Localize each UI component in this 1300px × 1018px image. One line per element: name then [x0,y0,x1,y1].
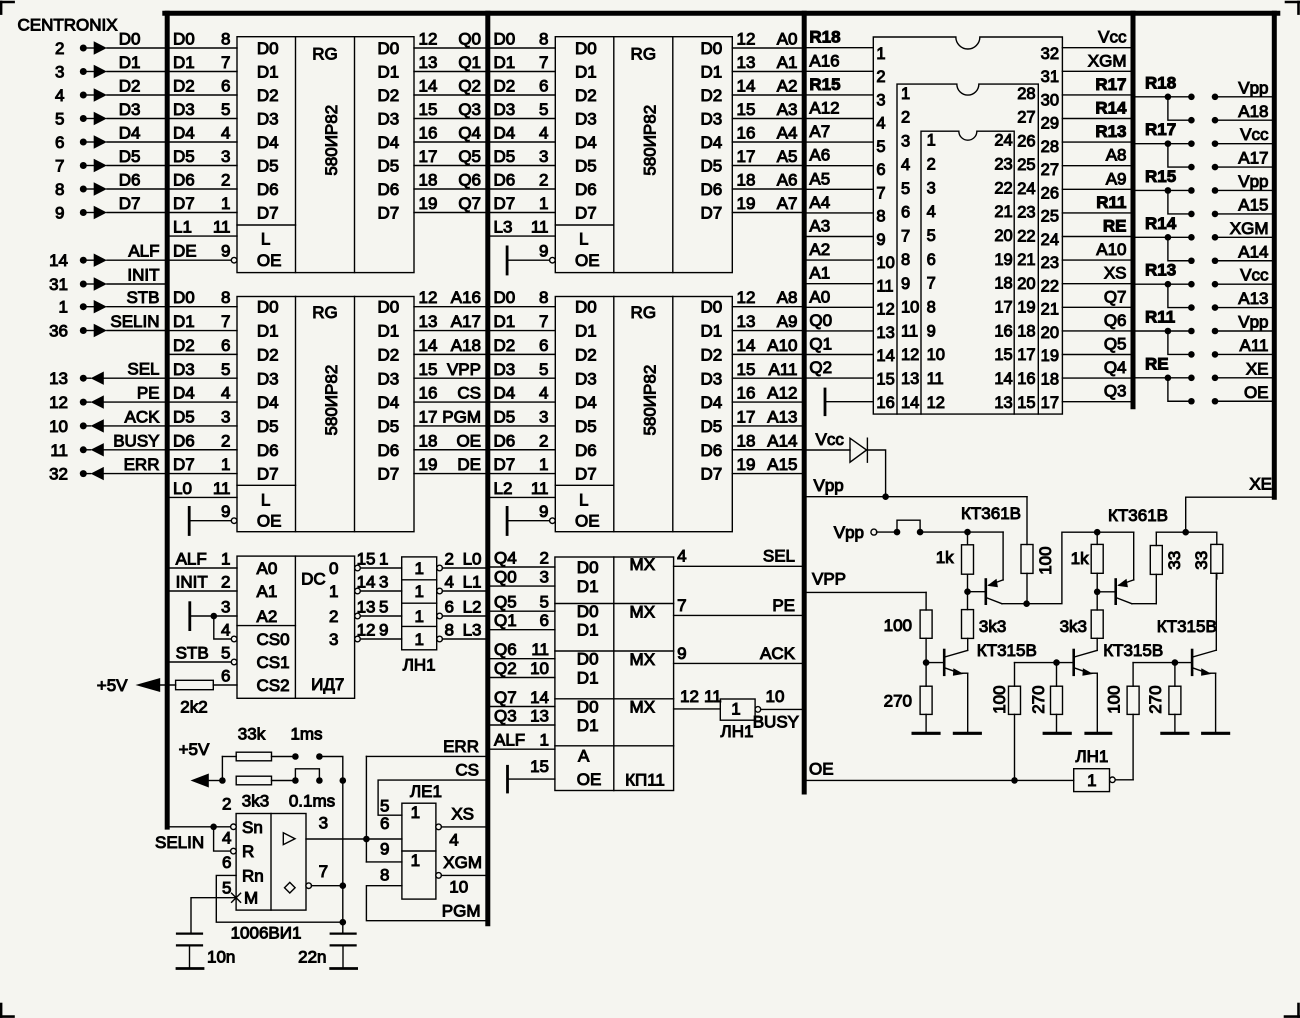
wire timing node vertical [342,781,344,934]
svg-text:R: R [242,842,254,861]
svg-text:14: 14 [357,573,376,592]
svg-text:D3: D3 [173,360,195,379]
gate output XGM pin 10 wire with circle [436,873,442,879]
svg-text:D0: D0 [577,602,599,621]
svg-text:D2: D2 [575,345,597,364]
svg-text:3: 3 [319,813,328,832]
svg-text:A0: A0 [777,30,798,49]
register DD2 output pin 19 DE wire [414,473,485,475]
frame corner mark bottom-right [1297,1004,1300,1017]
register DD1 input D4 pin 4 wire [170,141,237,143]
svg-text:D3: D3 [257,110,279,129]
node +5V junction [219,777,226,784]
decoder input CS1 pin 5 STB wire with inverter circle [170,661,232,663]
register DD1 latch input L1 pin 11 wire [170,235,237,237]
svg-text:D4: D4 [257,393,279,412]
svg-text:Q1: Q1 [458,53,481,72]
jumper group R17 net wire from bus [1133,143,1168,145]
socket pin 30 right wire net R17 [1062,94,1133,96]
svg-text:OE: OE [257,512,282,531]
svg-text:Q7: Q7 [1104,287,1127,306]
svg-text:A6: A6 [777,171,798,190]
inverter BUSY output circle pin 10 wire [755,707,761,713]
svg-text:XS: XS [1104,264,1127,283]
socket pin 14 left wire net Q1 [804,354,873,356]
svg-text:2: 2 [540,549,549,568]
svg-text:D5: D5 [575,417,597,436]
svg-text:11: 11 [901,323,918,341]
svg-text:D6: D6 [494,431,516,450]
svg-text:Vpp: Vpp [834,523,864,542]
svg-text:11: 11 [927,370,944,388]
svg-text:28: 28 [1041,138,1059,156]
svg-text:18: 18 [737,431,756,450]
svg-text:ACK: ACK [125,407,161,426]
frame corner mark bottom-left [0,1004,2,1017]
svg-text:D5: D5 [701,417,723,436]
svg-text:OE: OE [575,512,600,531]
timer output pin 7 wire with circle [306,883,312,889]
svg-text:D7: D7 [119,194,141,213]
svg-text:BUSY: BUSY [113,431,159,450]
svg-text:A10: A10 [1096,240,1126,259]
timer DD8 1006ВИ1 box [236,814,306,911]
svg-text:8: 8 [539,30,548,49]
svg-text:D3: D3 [494,100,516,119]
svg-text:12: 12 [49,393,68,412]
multiplexer input D1 pin 6 Q1 wire [490,629,555,631]
svg-text:5: 5 [222,879,231,898]
svg-text:Q3: Q3 [494,707,517,726]
svg-text:6: 6 [445,598,454,617]
svg-text:22n: 22n [298,948,326,967]
socket pin 21 right wire net Q7 [1062,306,1133,308]
svg-text:7: 7 [927,275,936,293]
svg-text:SEL: SEL [763,547,795,566]
svg-text:ЛН1: ЛН1 [721,722,754,741]
svg-text:32: 32 [49,465,68,484]
multiplexer input D0 pin 11 Q6 wire [490,658,555,660]
svg-text:A1: A1 [809,264,830,283]
svg-text:A11: A11 [769,360,798,379]
svg-text:D5: D5 [494,147,516,166]
svg-text:A9: A9 [777,312,798,331]
svg-text:L0: L0 [173,479,192,498]
svg-text:RG: RG [312,44,338,63]
svg-text:RG: RG [312,303,338,322]
register DD2 output pin 18 OE wire [414,449,485,451]
svg-text:MX: MX [630,650,656,669]
ground bar (R15v) [1044,732,1070,735]
svg-text:22: 22 [994,179,1012,197]
svg-text:10: 10 [766,687,785,706]
svg-text:19: 19 [737,455,756,474]
gate pin 9 input wire [366,861,402,863]
svg-text:2k2: 2k2 [180,698,207,717]
jumper pins R18 [1188,94,1195,101]
svg-text:D5: D5 [173,407,195,426]
svg-text:23: 23 [1041,254,1059,272]
svg-text:4: 4 [221,124,230,143]
jumper pads 1ms (open) [292,753,299,760]
wire Vcc from bus3 to diode [804,449,850,451]
svg-text:D1: D1 [378,63,400,82]
svg-text:CS2: CS2 [257,676,290,695]
svg-text:11: 11 [531,479,549,498]
svg-text:D0: D0 [378,298,400,317]
multiplexer address input A pin 1 ALF wire [490,748,555,750]
node timing/bottom-rail junction [340,919,347,926]
svg-text:26: 26 [1041,184,1059,202]
x-mark unconnected M pin [232,893,241,902]
register DD2 input D6 pin 2 wire [170,449,237,451]
socket pin 29 right wire net R14 [1062,118,1133,120]
svg-text:Q1: Q1 [809,335,832,354]
multiplexer DD7 КП11 box [555,557,674,791]
svg-text:Vcc: Vcc [1098,28,1127,47]
register DD3 input D4 pin 4 wire [490,141,555,143]
svg-text:2: 2 [221,573,230,592]
wire XE top rail [1156,531,1217,533]
svg-text:7: 7 [876,184,885,202]
svg-text:9: 9 [55,204,64,223]
svg-text:Q3: Q3 [458,100,481,119]
svg-text:A12: A12 [809,99,839,118]
register DD2 580ИР82 box [237,297,414,532]
jumper option Vpp wire [1215,189,1274,191]
svg-text:Q6: Q6 [494,640,517,659]
register DD3 output pin 17 A5 wire [732,165,801,167]
node XE junction [1182,529,1189,536]
svg-text:D3: D3 [701,369,723,388]
svg-text:4: 4 [927,203,936,221]
resistor R10 33 (XE to VT2) [1150,546,1162,575]
register DD2 output pin 14 A18 wire [414,353,485,355]
multiplexer input D0 pin 5 Q5 wire [490,610,555,612]
svg-text:Q4: Q4 [494,549,517,568]
svg-text:19: 19 [1041,347,1059,365]
svg-text:RE: RE [1145,354,1169,373]
jumper R11 option branch wire [1168,331,1192,354]
node VT4 base junction [1053,659,1060,666]
svg-text:15: 15 [357,550,376,569]
register DD3 latch input L3 pin 11 wire [490,235,555,237]
register DD4 latch input L2 pin 11 wire [490,496,555,498]
svg-text:1: 1 [414,630,423,649]
svg-text:2: 2 [329,607,338,626]
svg-text:D6: D6 [701,180,723,199]
ground bar (VT3 emitter) [954,732,980,735]
svg-text:D6: D6 [257,180,279,199]
svg-text:16: 16 [876,394,894,412]
svg-text:L2: L2 [463,598,482,617]
jumper group R11 net wire from bus [1133,330,1168,332]
transistor VT4 КТ315В (NPN) [1072,650,1075,675]
svg-text:A16: A16 [451,288,481,307]
timer input R pin 4 wire with circle [214,827,231,851]
svg-text:100: 100 [1036,546,1055,574]
svg-text:15: 15 [737,360,756,379]
svg-text:D2: D2 [173,336,195,355]
svg-text:D2: D2 [494,336,516,355]
register DD4 input D3 pin 5 wire [490,377,555,379]
jumper pads Vpp with bridge [894,529,901,536]
resistor R15v 270 (VT4 base to ground) [1056,663,1058,687]
svg-text:D5: D5 [494,407,516,426]
svg-text:XS: XS [451,805,474,824]
svg-text:11: 11 [531,218,549,237]
svg-text:D7: D7 [701,204,723,223]
node VT1 emitter/R5 junction [964,529,971,536]
frame corner mark top-right [1286,1,1300,4]
svg-text:14: 14 [737,77,756,96]
svg-text:5: 5 [876,138,885,156]
resistor R8 1k (VT2 base pull-up) [1096,532,1098,544]
svg-text:4: 4 [539,384,548,403]
svg-text:1: 1 [414,607,423,626]
svg-text:17: 17 [419,407,438,426]
svg-text:4: 4 [55,86,64,105]
svg-text:17: 17 [994,298,1012,316]
svg-text:КТ315В: КТ315В [977,641,1037,660]
svg-text:D6: D6 [119,171,141,190]
svg-text:L3: L3 [463,621,482,640]
svg-text:11: 11 [213,479,231,498]
svg-text:D0: D0 [494,288,516,307]
jumper option A13 wire [1215,307,1274,309]
svg-text:21: 21 [1041,301,1059,319]
register DD4 input D1 pin 7 wire [490,330,555,332]
svg-text:1: 1 [539,194,548,213]
jumper R13 option branch wire [1168,284,1192,307]
svg-text:D1: D1 [577,716,599,735]
svg-text:D6: D6 [575,180,597,199]
svg-text:D6: D6 [173,431,195,450]
svg-text:27: 27 [1041,161,1059,179]
svg-text:R18: R18 [809,28,840,47]
svg-text:XGM: XGM [443,853,482,872]
svg-text:32: 32 [1041,45,1059,63]
svg-text:18: 18 [1017,323,1035,341]
svg-text:A13: A13 [767,407,797,426]
socket pin 26 right wire net A9 [1062,188,1133,190]
svg-text:L2: L2 [494,479,513,498]
node SELIN junction [210,824,217,831]
svg-text:A2: A2 [257,607,278,626]
jumper option Vpp wire [1215,96,1274,98]
svg-text:1k: 1k [936,548,954,567]
jumper option A17 wire [1215,166,1274,168]
timer discharge diamond symbol [285,882,296,893]
svg-text:2: 2 [55,39,64,58]
jumper option XGM wire [1215,236,1274,238]
svg-text:CS1: CS1 [257,653,290,672]
svg-text:270: 270 [1146,685,1165,713]
svg-text:КТ361В: КТ361В [961,504,1021,523]
svg-text:D5: D5 [257,417,279,436]
svg-text:3: 3 [539,147,548,166]
register DD2 input D2 pin 6 wire [170,353,237,355]
socket pin 32 right wire net Vcc [1062,47,1133,49]
jumper R14 option branch wire [1168,237,1192,260]
register DD3 OE input pin 9 grounded (logic-low bar) with inverter circle [506,247,509,274]
svg-text:D6: D6 [494,171,516,190]
svg-text:8: 8 [876,208,885,226]
svg-text:6: 6 [380,814,389,833]
node VT3 base junction [923,659,930,666]
jumper option A14 wire [1215,260,1274,262]
svg-text:3k3: 3k3 [242,792,269,811]
resistor R4 100 (Vpp rail) [1021,545,1033,574]
svg-text:28: 28 [1017,85,1035,103]
svg-text:D1: D1 [494,53,516,72]
svg-text:9: 9 [876,231,885,249]
decoder DD5 ИД7 box [237,556,355,698]
svg-text:Q1: Q1 [494,611,517,630]
svg-text:3: 3 [901,132,910,150]
wire VT2 collector to resistor R10 33 [1155,574,1157,603]
svg-text:Q7: Q7 [494,688,517,707]
svg-text:D7: D7 [701,465,723,484]
svg-text:КТ315В: КТ315В [1103,641,1163,660]
svg-text:Q5: Q5 [494,593,517,612]
jumper option Vcc wire [1215,143,1274,145]
svg-text:Q3: Q3 [1104,382,1127,401]
gate pin 6 input wire [366,838,402,840]
svg-text:CS0: CS0 [257,630,290,649]
socket pin 4 left wire net A12 [804,118,873,120]
svg-text:R17: R17 [1095,75,1126,94]
svg-text:9: 9 [901,275,910,293]
register DD2 output pin 13 A17 wire [414,330,485,332]
svg-text:D7: D7 [173,455,195,474]
bus line 3 (address/control) [802,13,807,792]
svg-text:100: 100 [884,616,912,635]
svg-text:A1: A1 [777,53,798,72]
svg-text:19: 19 [737,194,756,213]
svg-text:Q0: Q0 [458,30,481,49]
svg-text:D6: D6 [701,441,723,460]
register DD4 OE input pin 9 grounded (logic-low bar) with inverter circle [506,507,509,534]
svg-text:A12: A12 [767,384,797,403]
svg-text:3: 3 [927,179,936,197]
node R14 junction [1165,234,1172,241]
svg-text:100: 100 [990,685,1009,713]
svg-text:1: 1 [540,731,549,750]
svg-text:D0: D0 [577,650,599,669]
svg-text:5: 5 [379,598,388,617]
svg-text:OE: OE [809,760,834,779]
svg-text:36: 36 [49,322,68,341]
svg-text:A16: A16 [809,51,839,70]
svg-text:MX: MX [630,555,656,574]
svg-text:2: 2 [445,550,454,569]
register DD1 output pin 12 Q0 wire [414,47,485,49]
register DD4 input D7 pin 1 wire [490,473,555,475]
svg-text:ERR: ERR [124,455,160,474]
svg-text:3: 3 [540,568,549,587]
register DD1 output pin 13 Q1 wire [414,71,485,73]
svg-text:580ИР82: 580ИР82 [640,365,659,436]
register DD3 input D3 pin 5 wire [490,118,555,120]
svg-text:D0: D0 [119,30,141,49]
svg-text:15: 15 [530,757,549,776]
svg-text:12: 12 [737,288,756,307]
svg-text:CENTRONIX: CENTRONIX [18,15,118,34]
socket pin 3 left wire net R15 [804,94,873,96]
svg-text:D0: D0 [577,558,599,577]
svg-text:A9: A9 [1106,169,1127,188]
svg-text:7: 7 [221,312,230,331]
svg-text:10: 10 [927,346,945,364]
register DD3 input D0 pin 8 wire [490,47,555,49]
svg-text:D7: D7 [575,204,597,223]
svg-text:A18: A18 [451,336,481,355]
resistor R14 100 (OE to VT4 base) [1014,714,1016,780]
svg-text:2: 2 [539,171,548,190]
wire VT1 collector to VT2 node [1027,532,1098,604]
svg-text:7: 7 [55,157,64,176]
svg-text:10: 10 [449,878,468,897]
svg-text:9: 9 [539,242,548,261]
svg-text:VPP: VPP [447,360,481,379]
svg-text:15: 15 [1017,394,1035,412]
register DD3 output pin 16 A4 wire [732,141,801,143]
jumper pins R14 [1188,234,1195,241]
svg-text:SEL: SEL [127,360,159,379]
wire 33k to jumper pad [272,756,296,758]
svg-text:12: 12 [876,301,894,319]
register DD1 input D5 pin 3 wire [170,165,237,167]
svg-text:D0: D0 [257,298,279,317]
socket pin 7 left wire net A5 [804,188,873,190]
capacitor C1 10n [177,932,202,934]
node R11 junction [1165,328,1172,335]
svg-text:19: 19 [419,194,438,213]
svg-text:11: 11 [50,441,68,460]
node gate input junction [363,836,370,843]
svg-text:6: 6 [539,77,548,96]
svg-text:4: 4 [445,573,454,592]
svg-text:25: 25 [1017,156,1035,174]
svg-text:ALF: ALF [494,731,525,750]
power +5V arrow (CS2 pull-up) [136,678,161,692]
svg-text:XGM: XGM [1230,219,1269,238]
svg-text:13: 13 [357,598,376,617]
svg-text:15: 15 [737,100,756,119]
svg-text:17: 17 [419,147,438,166]
svg-text:ERR: ERR [443,737,479,756]
svg-text:11: 11 [213,218,231,237]
svg-text:4: 4 [221,384,230,403]
svg-text:3: 3 [221,598,230,617]
wire inverter output up to VT5 base [1132,714,1134,779]
svg-text:1k: 1k [1071,549,1089,568]
svg-text:A17: A17 [451,312,481,331]
svg-text:1ms: 1ms [290,725,322,744]
socket pin 24 right wire net RE [1062,236,1133,238]
svg-text:R17: R17 [1145,120,1176,139]
svg-text:STB: STB [176,644,209,663]
svg-text:1: 1 [414,559,423,578]
resistor R17v 270 (VT5 base to ground) [1174,663,1176,687]
svg-text:1: 1 [539,455,548,474]
svg-text:OE: OE [575,251,600,270]
svg-text:D5: D5 [257,157,279,176]
svg-text:Vpp: Vpp [814,476,844,495]
svg-text:6: 6 [221,77,230,96]
resistor R3 3k3 (0.1ms timing) [236,776,271,785]
